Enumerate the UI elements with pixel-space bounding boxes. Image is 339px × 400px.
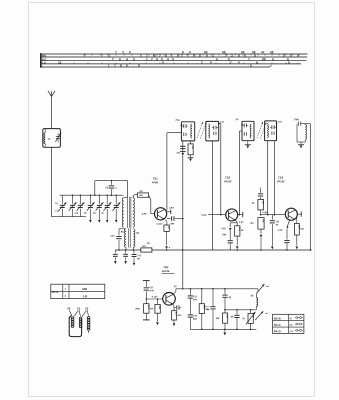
wire R3 to rail xyxy=(166,231,168,245)
coupling capacitor C27 xyxy=(144,281,155,299)
resistor R13 xyxy=(199,289,209,330)
lead S2 to winding xyxy=(87,310,88,316)
IF transformer 2 primary box xyxy=(242,121,254,140)
lead S3 crossing xyxy=(74,311,79,317)
label SK-B row xyxy=(274,317,303,321)
label TS3 xyxy=(276,176,285,184)
svg-text:2V: 2V xyxy=(174,285,177,288)
lower capacitor bars inside IF1 secondary xyxy=(213,132,215,135)
svg-text:0.15V: 0.15V xyxy=(157,224,163,226)
wire L1 to tuning gang xyxy=(51,147,53,216)
svg-text:MG: MG xyxy=(82,287,88,291)
chassis arrow under C7 xyxy=(106,220,109,223)
resistor R14 xyxy=(216,310,228,330)
winding 3 on ferrite rod xyxy=(87,317,90,333)
resistor R1 xyxy=(138,190,149,197)
wire IF2 primary to TS2 collector xyxy=(240,131,243,215)
lower capacitor bars inside IF2 secondary xyxy=(271,132,273,135)
svg-text:70N: 70N xyxy=(175,120,179,122)
transistor TS2 xyxy=(226,209,238,221)
wire TS4 emitter xyxy=(173,304,174,306)
svg-text:5: 5 xyxy=(133,57,135,61)
label TS2 xyxy=(223,176,232,184)
junction arrow onto rail xyxy=(165,246,170,250)
svg-text:7: 7 xyxy=(181,54,183,58)
emitter supply rail xyxy=(115,249,312,251)
resistor R6 xyxy=(235,226,244,236)
svg-text:7: 7 xyxy=(151,57,153,61)
winding 2 on ferrite rod xyxy=(79,317,82,319)
svg-text:70N: 70N xyxy=(176,153,180,155)
svg-text:4: 4 xyxy=(167,57,169,61)
wire detector to right bus xyxy=(305,124,311,251)
switch SK-B contact xyxy=(257,284,264,293)
terminal dot IF2 secondary xyxy=(276,123,278,125)
svg-text:0.9V: 0.9V xyxy=(201,214,206,217)
lead S4 to winding xyxy=(69,310,72,316)
resistor R10 xyxy=(135,299,149,320)
potentiometer R15 volume xyxy=(242,310,255,330)
output coil S8 xyxy=(251,292,258,310)
capacitor inside IF2 primary xyxy=(241,124,248,128)
wire IF1 secondary bottom to rail xyxy=(212,141,214,250)
wire TS3 emitter xyxy=(287,220,290,240)
wire S6 primary bottom to rail xyxy=(125,247,127,250)
wire R6 to rail with arrow xyxy=(236,236,239,251)
wire R1 to TS1 base xyxy=(149,195,155,214)
svg-text:3: 3 xyxy=(231,54,233,58)
transistor TS3 xyxy=(285,208,297,220)
svg-text:TS1: TS1 xyxy=(153,177,159,181)
svg-text:SK-A: SK-A xyxy=(52,290,59,294)
capacitor C16 under IF1 xyxy=(176,146,186,155)
svg-text:20N: 20N xyxy=(170,223,174,225)
coil inside IF1 primary xyxy=(191,124,192,138)
capacitor C23 xyxy=(270,215,280,250)
chassis arrow under C6 xyxy=(98,220,101,223)
variable capacitor C6 xyxy=(96,194,104,219)
svg-text:70N: 70N xyxy=(222,234,226,236)
variable capacitor C4 xyxy=(74,194,84,216)
ground under R4 xyxy=(188,158,194,162)
transistor TS4 xyxy=(163,293,176,306)
svg-text:1: 1 xyxy=(146,57,148,61)
svg-text:1: 1 xyxy=(140,54,142,58)
chassis arrow under C5 xyxy=(89,220,92,223)
svg-text:7: 7 xyxy=(112,57,114,61)
terminal dot IF1 secondary xyxy=(218,123,220,125)
switch SK-C contact xyxy=(255,311,263,320)
svg-text:7: 7 xyxy=(248,57,250,61)
capacitor inside IF2 secondary xyxy=(270,125,277,129)
svg-text:TS4: TS4 xyxy=(163,265,169,269)
svg-text:7: 7 xyxy=(187,54,189,58)
svg-text:SK-C: SK-C xyxy=(274,323,281,327)
svg-text:3: 3 xyxy=(122,50,124,54)
svg-text:8N: 8N xyxy=(231,316,234,318)
wire TS3 base xyxy=(261,214,286,216)
label SK-D row xyxy=(274,329,303,333)
ground under detector xyxy=(298,142,304,148)
variable capacitor C7 xyxy=(104,194,112,219)
svg-text:LG: LG xyxy=(42,62,46,65)
capacitor C25 emitter bypass TS2 xyxy=(222,223,238,250)
svg-text:8: 8 xyxy=(189,50,191,54)
winding 1 on ferrite rod xyxy=(71,317,74,319)
wire IF2 primary bottom to ground xyxy=(245,141,251,149)
IF transformer 2 secondary box xyxy=(265,121,277,141)
chassis arrow under C8 xyxy=(115,220,118,223)
detector capacitor C24 xyxy=(294,119,306,142)
audio bottom rail xyxy=(190,329,256,331)
wire TS4 base xyxy=(146,298,163,300)
svg-text:7: 7 xyxy=(225,54,227,58)
svg-text:LG: LG xyxy=(83,294,88,298)
IF transformer 1 secondary box xyxy=(206,121,219,140)
detector coil S7 xyxy=(297,124,307,142)
svg-text:47: 47 xyxy=(261,50,265,54)
padder capacitor C9 xyxy=(105,180,117,196)
coil inside IF1 secondary xyxy=(208,124,209,138)
IF transformer S6 core xyxy=(129,228,131,247)
wire S6 secondary bottom to rail xyxy=(133,247,135,251)
wire S6 primary top to C10 xyxy=(119,228,126,230)
resistor R12 xyxy=(172,311,182,327)
transistor TS1 xyxy=(155,208,167,220)
oscillator transformer S5 primary winding xyxy=(122,198,124,227)
switch contact table xyxy=(273,314,304,333)
svg-text:AF125: AF125 xyxy=(276,180,285,183)
trimmer capacitor C2 xyxy=(55,195,66,217)
wire TS4 collector to audio rail xyxy=(174,289,176,294)
ferrite rod outline xyxy=(69,316,81,337)
wire secondary top to R1 xyxy=(133,194,138,197)
oscillator transformer S5 secondary winding xyxy=(133,198,135,227)
svg-text:8: 8 xyxy=(129,50,131,54)
wire TS1 collector to IF1 xyxy=(167,133,182,211)
svg-text:TS2: TS2 xyxy=(225,176,231,180)
svg-text:4: 4 xyxy=(126,57,128,61)
svg-text:SK-B: SK-B xyxy=(274,317,281,321)
resistor R11 xyxy=(150,299,160,325)
wire TS2 emitter xyxy=(235,220,237,222)
svg-text:8: 8 xyxy=(238,54,240,58)
ground arrow on bottom rail xyxy=(223,329,226,335)
svg-text:88: 88 xyxy=(262,57,266,61)
capacitor C35 xyxy=(231,310,240,330)
wire oscillator loop xyxy=(94,181,127,197)
svg-text:AF96: AF96 xyxy=(151,181,159,184)
linkage dashes to switch table xyxy=(265,286,269,314)
label TS4 xyxy=(161,265,175,273)
svg-text:1A: 1A xyxy=(48,138,51,141)
svg-text:7: 7 xyxy=(101,54,103,58)
coil inside IF2 secondary xyxy=(267,124,268,138)
svg-text:0.9V: 0.9V xyxy=(142,213,147,216)
audio mid rail xyxy=(224,309,256,311)
svg-text:8: 8 xyxy=(119,57,121,61)
tuning arrows IF2 xyxy=(257,122,266,139)
junction dots TS3 base xyxy=(267,214,275,216)
decoupling capacitor C11 below rail xyxy=(113,250,118,261)
svg-text:0.2V: 0.2V xyxy=(239,222,244,224)
wire IF1 primary down to audio rail xyxy=(182,141,184,290)
capacitor inside IF1 primary xyxy=(181,124,188,128)
svg-text:4: 4 xyxy=(272,57,274,61)
svg-text:9: 9 xyxy=(156,57,158,61)
svg-text:1.9V: 1.9V xyxy=(169,207,174,210)
svg-text:TS3: TS3 xyxy=(278,176,284,180)
trimmer capacitor C1 xyxy=(55,133,61,142)
capacitor C14 emitter bypass xyxy=(167,216,184,225)
TS1 collector stub terminal xyxy=(167,210,171,215)
svg-text:AF126: AF126 xyxy=(161,270,170,273)
svg-text:9: 9 xyxy=(254,54,256,58)
svg-text:AF125: AF125 xyxy=(223,180,232,183)
svg-text:UN: UN xyxy=(289,325,293,327)
bottom bus of tuning gang xyxy=(52,216,87,218)
resistor R2 in rail xyxy=(141,242,152,252)
resistor R8 xyxy=(250,218,264,251)
resistor R9 xyxy=(294,216,304,249)
top bus of tuning gang xyxy=(60,194,124,196)
svg-text:7: 7 xyxy=(84,54,86,58)
svg-text:7N: 7N xyxy=(235,119,238,121)
svg-text:9: 9 xyxy=(172,57,174,61)
svg-text:8: 8 xyxy=(199,54,201,58)
variable capacitor C3 xyxy=(69,194,77,216)
lower capacitor bars inside IF1 primary xyxy=(183,133,185,136)
resistor R4 under IF1 xyxy=(188,141,193,158)
svg-text:SK-D: SK-D xyxy=(274,329,281,333)
oscillator transformer core xyxy=(128,197,131,228)
wire IF2 secondary pin 2 down xyxy=(273,141,275,215)
AGC capacitor C22 xyxy=(258,188,263,200)
svg-text:0.12V: 0.12V xyxy=(152,296,158,298)
svg-text:S4: S4 xyxy=(67,306,71,310)
svg-text:7: 7 xyxy=(115,50,117,54)
svg-text:0.45V: 0.45V xyxy=(262,211,268,214)
capacitor C31 xyxy=(188,289,198,315)
chassis arrow under C12 xyxy=(124,261,127,264)
svg-text:8: 8 xyxy=(244,54,246,58)
lead S3 to winding xyxy=(79,310,80,316)
svg-text:1.3V: 1.3V xyxy=(277,229,282,232)
trimmer capacitor C8 xyxy=(113,194,121,219)
svg-text:47N: 47N xyxy=(149,289,153,292)
IF transformer S6 secondary winding xyxy=(133,229,135,247)
wire TS3 collector xyxy=(297,212,301,217)
audio input terminal top xyxy=(143,280,150,282)
wire TS2 collector xyxy=(238,212,243,217)
IF transformer 1 primary box xyxy=(181,122,194,141)
dial scale assembly xyxy=(41,50,308,67)
svg-text:3: 3 xyxy=(108,54,110,58)
audio supply rail xyxy=(176,288,258,290)
label TS1 xyxy=(151,177,159,185)
coil inside IF2 primary xyxy=(250,124,251,138)
capacitor inside IF1 secondary xyxy=(212,126,219,130)
capacitor C26 emitter bypass TS3 xyxy=(284,241,289,251)
capacitor C10 xyxy=(111,229,122,250)
chassis arrow under C13 xyxy=(133,263,136,266)
svg-text:9: 9 xyxy=(206,54,208,58)
label SK-C row xyxy=(274,323,303,327)
wire TS1 emitter xyxy=(165,220,167,222)
electrolytic capacitor C34 xyxy=(222,289,231,310)
antenna xyxy=(48,91,55,97)
band switch table SK-A xyxy=(51,284,105,298)
svg-text:3: 3 xyxy=(212,54,214,58)
svg-text:98: 98 xyxy=(270,50,274,54)
wire IF1 secondary to TS2 base xyxy=(219,124,222,216)
svg-text:4E: 4E xyxy=(228,296,231,299)
tuning arrows IF1 xyxy=(197,122,206,139)
audio input terminal bottom xyxy=(143,319,150,321)
lead S2 crossing xyxy=(82,311,87,317)
antenna tuned circuit box L1 xyxy=(43,129,61,148)
svg-text:MG: MG xyxy=(42,55,46,58)
IF transformer S6 primary winding xyxy=(124,229,126,247)
capacitor C32 xyxy=(188,315,198,329)
svg-text:179N: 179N xyxy=(294,119,300,121)
wire TS2 base xyxy=(208,214,225,216)
svg-text:C177: C177 xyxy=(205,306,211,308)
lower capacitor bars inside IF2 primary xyxy=(243,132,245,135)
svg-text:S2: S2 xyxy=(85,306,89,310)
resistor R7 xyxy=(252,199,264,215)
resistor R3 xyxy=(164,225,169,231)
svg-text:4: 4 xyxy=(216,57,218,61)
wire antenna to coil L1 xyxy=(51,96,53,128)
decoupling capacitor C12 below rail xyxy=(123,250,128,261)
capacitor C29 emitter bypass TS4 xyxy=(174,306,181,310)
variable capacitor C5 xyxy=(87,194,95,219)
wire IF2 secondary pin 1 to TS3 base xyxy=(267,141,269,215)
decoupling capacitor C13 below rail xyxy=(132,250,142,262)
chassis arrow under C11 xyxy=(114,261,117,264)
coil L1 winding xyxy=(44,133,45,144)
capacitor C33 xyxy=(205,289,216,330)
svg-text:12: 12 xyxy=(58,60,62,64)
svg-text:8: 8 xyxy=(193,54,195,58)
svg-text:6: 6 xyxy=(177,54,179,58)
